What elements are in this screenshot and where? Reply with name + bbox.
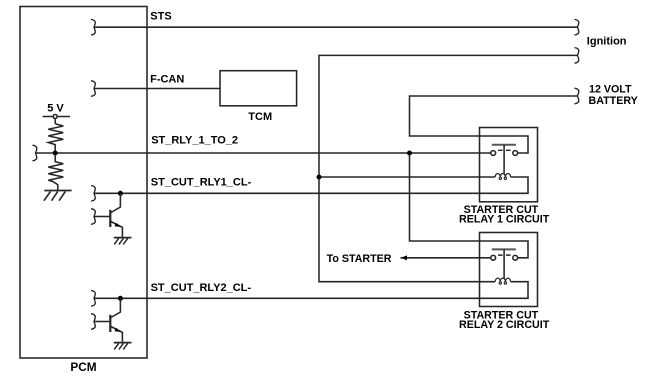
svg-text:RELAY 1 CIRCUIT: RELAY 1 CIRCUIT — [459, 214, 550, 226]
svg-text:ST_RLY_1_TO_2: ST_RLY_1_TO_2 — [151, 134, 238, 146]
svg-text:F-CAN: F-CAN — [150, 74, 184, 86]
svg-text:Ignition: Ignition — [587, 36, 627, 48]
svg-text:To STARTER: To STARTER — [327, 253, 392, 265]
svg-text:ST_CUT_RLY2_CL-: ST_CUT_RLY2_CL- — [151, 282, 252, 294]
svg-text:12 VOLT: 12 VOLT — [589, 84, 632, 96]
svg-text:RELAY 2 CIRCUIT: RELAY 2 CIRCUIT — [459, 319, 550, 331]
svg-text:STS: STS — [150, 11, 171, 23]
svg-text:5 V: 5 V — [47, 102, 64, 114]
svg-text:TCM: TCM — [248, 111, 272, 123]
svg-text:ST_CUT_RLY1_CL-: ST_CUT_RLY1_CL- — [151, 177, 252, 189]
svg-text:BATTERY: BATTERY — [589, 95, 638, 107]
svg-text:PCM: PCM — [70, 360, 96, 374]
